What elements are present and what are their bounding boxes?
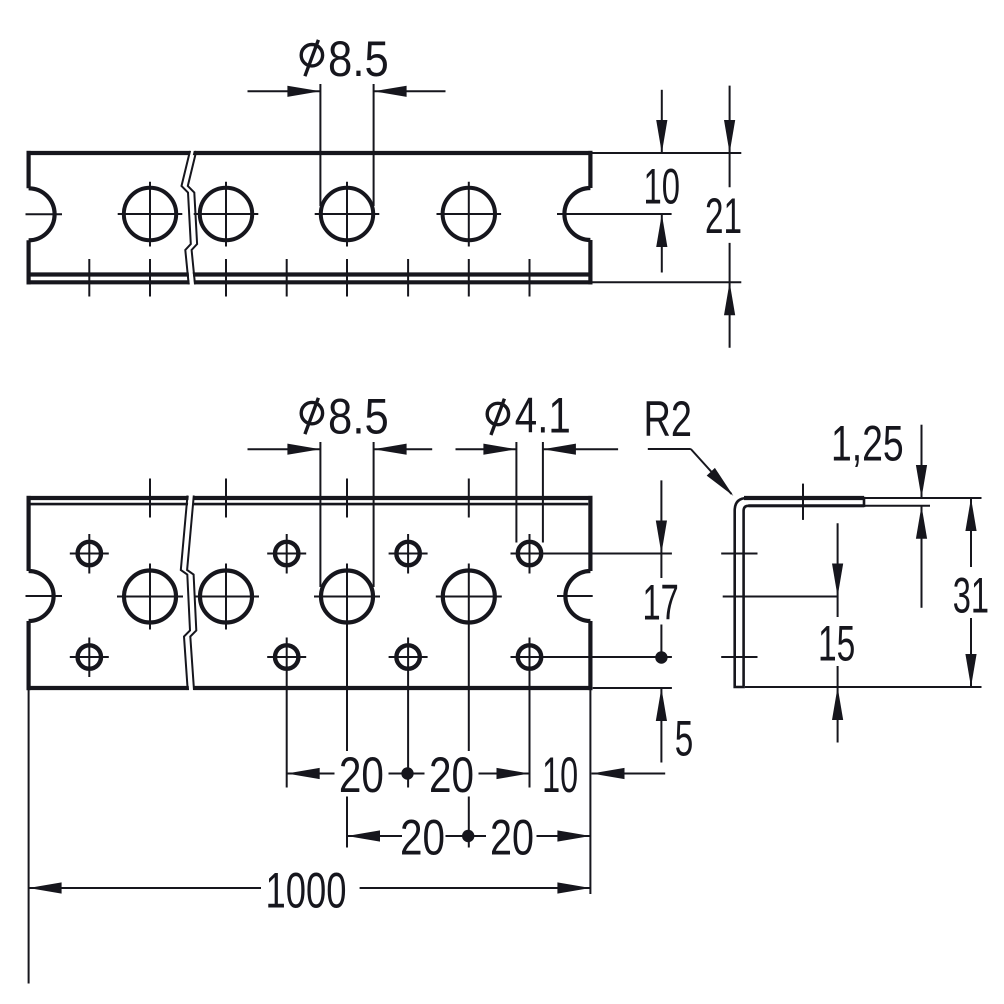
- arrow right: [557, 882, 590, 893]
- dimension line segments: [970, 498, 972, 687]
- hole 2: [200, 188, 252, 240]
- junction dot: [462, 830, 474, 842]
- extension line right edge: [589, 690, 591, 894]
- flange underside extension line: [864, 505, 930, 507]
- dimension line segments: [660, 554, 662, 658]
- break gap (white): [183, 149, 195, 289]
- arrow at right edge: [557, 830, 590, 841]
- dimension line right: [543, 448, 618, 450]
- svg-text:10: 10: [644, 158, 681, 214]
- small hole S2 bottom: [396, 645, 419, 668]
- left notch centerline: [26, 595, 63, 597]
- svg-text:20: 20: [490, 809, 534, 865]
- extension lines: [516, 442, 543, 543]
- dimension line: [29, 887, 591, 889]
- svg-text:1,25: 1,25: [831, 416, 904, 472]
- large hole L3: [443, 571, 495, 623]
- dimension line right: [374, 90, 446, 92]
- right notch centerline: [557, 595, 593, 597]
- large hole L1: [200, 571, 252, 623]
- dimension line left: [248, 90, 321, 92]
- right notch centerline: [557, 213, 672, 215]
- svg-text:5: 5: [675, 711, 694, 767]
- small hole S2 top: [396, 542, 419, 565]
- right edge with half-round notch: [588, 151, 592, 285]
- upper arrow tail: [660, 480, 662, 553]
- bottom extension line: [745, 686, 982, 688]
- small hole S0 top: [78, 542, 101, 565]
- break line right: [188, 151, 197, 284]
- arrow at S1: [287, 768, 320, 779]
- leader diagonal: [691, 449, 732, 494]
- extension line large hole L3: [468, 564, 470, 848]
- large hole row ticks on top edge: [150, 479, 469, 518]
- svg-text:1000: 1000: [266, 863, 347, 919]
- hole 4: [443, 188, 495, 240]
- small hole S0 bottom: [78, 645, 101, 668]
- leader arrowhead: [707, 468, 734, 496]
- svg-text:4.1: 4.1: [515, 388, 571, 444]
- upper arrow: [965, 498, 976, 531]
- upper arrow tail: [837, 523, 839, 596]
- right edge notch arc: [564, 188, 590, 240]
- small hole S1 bottom: [275, 645, 298, 668]
- top edge of strip: [27, 151, 593, 155]
- hole row centerline middle (extension for 15): [723, 596, 838, 598]
- left edge with half-round notch: [27, 151, 31, 285]
- hole 3: [321, 188, 373, 240]
- dimension line left: [248, 448, 321, 450]
- left edge with notch: [27, 496, 31, 690]
- large hole L0: [124, 571, 176, 623]
- svg-text:15: 15: [818, 615, 855, 671]
- small hole S3 bottom: [518, 645, 541, 668]
- left notch arc: [29, 571, 54, 621]
- extension line large hole L2: [346, 564, 348, 848]
- dimension line segments: [729, 153, 731, 282]
- svg-text:17: 17: [642, 574, 678, 630]
- diameter symbol: [301, 45, 322, 66]
- arrow at S3: [497, 768, 530, 779]
- top edge (fold, outer): [27, 496, 593, 500]
- arrow: [287, 86, 320, 97]
- upper arrow tail: [661, 90, 663, 153]
- small hole row line top (extension for 17): [511, 553, 672, 555]
- dimension line: [347, 835, 590, 837]
- hole row tick bottom: [721, 656, 757, 658]
- arrow left: [29, 882, 62, 893]
- flange hole tick: [802, 484, 804, 520]
- extension line small hole S2: [407, 638, 409, 788]
- svg-text:8.5: 8.5: [328, 389, 389, 445]
- extension line small hole S3: [529, 638, 531, 788]
- right edge with notch: [588, 496, 592, 690]
- lower arrow: [656, 214, 667, 247]
- svg-text:20: 20: [339, 747, 384, 803]
- extension line top: [593, 152, 742, 154]
- junction dot: [401, 767, 413, 779]
- arrow: [374, 86, 407, 97]
- bottom edge (outer): [27, 280, 593, 284]
- outside arrow at right edge: [592, 768, 625, 779]
- top extension line: [864, 497, 982, 499]
- bottom fold line (inner): [27, 272, 593, 276]
- extension lines: [320, 442, 373, 587]
- small hole S3 top: [518, 542, 541, 565]
- junction dot: [655, 651, 667, 663]
- arrow: [656, 688, 667, 721]
- extension lines: [320, 84, 373, 206]
- leader underline: [648, 448, 691, 450]
- small hole row line bottom (extension for 17/5): [511, 656, 672, 658]
- bottom edge: [27, 686, 593, 690]
- svg-text:31: 31: [953, 567, 989, 623]
- small hole S1 top: [275, 542, 298, 565]
- svg-text:R2: R2: [643, 391, 692, 447]
- right notch arc: [565, 571, 590, 621]
- large hole L2: [321, 571, 373, 623]
- break gap (white): [182, 493, 196, 693]
- break line right: [187, 496, 196, 691]
- lower arrow: [724, 282, 735, 315]
- hole row tick top: [721, 553, 757, 555]
- profile outline: [735, 498, 864, 687]
- svg-text:20: 20: [429, 747, 474, 803]
- lower arrow: [832, 687, 843, 720]
- hole 1: [124, 188, 176, 240]
- lower arrow: [916, 506, 927, 539]
- dimension line: [287, 773, 530, 775]
- diameter symbol: [487, 403, 508, 424]
- left notch centerline: [26, 213, 63, 215]
- svg-text:10: 10: [542, 747, 578, 803]
- dimension line segments: [837, 597, 839, 688]
- diameter symbol: [301, 402, 322, 423]
- lower arrow: [965, 654, 976, 687]
- break line left: [182, 151, 191, 284]
- extension line left edge: [28, 690, 30, 984]
- flange top edge (thick): [744, 496, 864, 500]
- svg-text:21: 21: [705, 188, 742, 244]
- break line left: [181, 496, 190, 691]
- bottom edge extension (for 5): [593, 687, 672, 689]
- flange bottom edge: [748, 504, 864, 507]
- flange hole pitch ticks on bottom edge: [89, 259, 529, 297]
- extension line bottom: [593, 281, 742, 283]
- dimension line left: [456, 448, 517, 450]
- extension line small hole S1: [286, 638, 288, 788]
- left edge notch arc: [29, 188, 55, 240]
- svg-text:8.5: 8.5: [328, 31, 389, 87]
- upper arrow: [921, 425, 923, 498]
- top fold tangent line: [29, 503, 589, 506]
- svg-text:20: 20: [400, 809, 445, 865]
- arrow at L2: [347, 830, 380, 841]
- upper arrow: [729, 86, 731, 153]
- dimension line right: [374, 448, 433, 450]
